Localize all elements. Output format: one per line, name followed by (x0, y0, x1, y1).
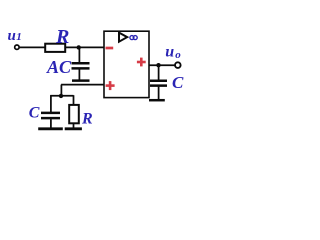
svg-text:1: 1 (16, 31, 22, 43)
svg-text:o: o (175, 49, 181, 61)
svg-text:u: u (8, 28, 16, 44)
svg-text:AC: AC (46, 57, 72, 77)
svg-text:C: C (29, 104, 40, 121)
svg-text:u: u (165, 44, 174, 61)
svg-text:R: R (55, 26, 69, 48)
svg-text:R: R (81, 110, 93, 127)
svg-text:C: C (172, 73, 184, 92)
